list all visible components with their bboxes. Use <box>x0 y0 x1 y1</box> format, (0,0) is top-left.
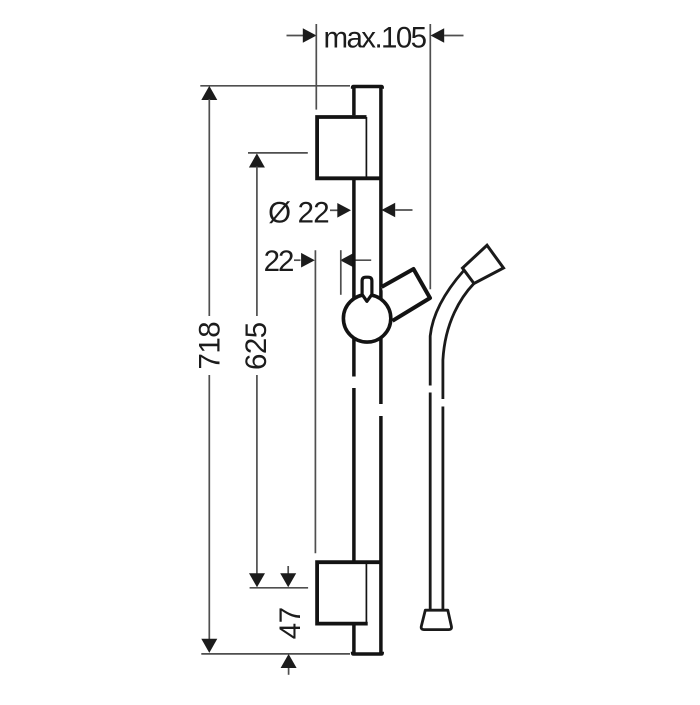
svg-text:22: 22 <box>264 245 293 278</box>
bottom wall bracket right thin edge <box>365 563 367 624</box>
dimension diameter 22 right shaft <box>395 209 412 211</box>
slider knob circle <box>343 295 390 342</box>
dimension 625 bottom arrowhead <box>249 573 265 587</box>
dimension 22 right shaft <box>354 259 371 261</box>
dimension 22 right extension line <box>340 250 342 295</box>
shower rail left edge <box>352 87 356 654</box>
dimension 625 line lower segment <box>256 375 258 574</box>
svg-text:max.105: max.105 <box>324 22 427 55</box>
dimension max.105 left shaft <box>287 35 304 37</box>
top wall bracket right thin edge <box>365 117 367 178</box>
dimension 625 top extension line <box>248 152 308 154</box>
dimension 625 line upper segment <box>256 167 258 317</box>
handshower holder cone <box>382 269 431 321</box>
svg-text:625: 625 <box>240 322 273 370</box>
hose left line <box>430 271 464 612</box>
bottom wall bracket fill <box>315 561 367 625</box>
dimension 22 right arrowhead <box>340 253 354 268</box>
hose bottom conical end <box>421 610 451 629</box>
dimension 625 top arrowhead <box>249 153 265 167</box>
dimension max.105 left extension line <box>315 24 317 110</box>
dimension 22 left shaft <box>294 259 301 261</box>
dimension 22 left arrowhead <box>301 253 315 268</box>
dimension 47 top shaft <box>287 566 289 574</box>
bottom wall bracket thick outline <box>317 562 381 623</box>
shower rail right edge <box>379 87 383 654</box>
dimension 47 bottom shaft <box>288 668 290 675</box>
top wall bracket thick outline <box>317 117 379 178</box>
dimension max.105 right shaft <box>444 35 464 37</box>
slider pin <box>362 277 372 301</box>
dimension diameter 22 left arrowhead <box>337 203 351 218</box>
dimension 22 left extension line <box>314 250 316 553</box>
dimension 625/47 shared extension line <box>250 587 309 589</box>
dimension 718 line upper segment <box>208 99 210 316</box>
svg-text:Ø 22: Ø 22 <box>268 196 329 229</box>
svg-text:718: 718 <box>193 322 226 370</box>
dimension 47 bottom arrowhead <box>281 654 297 668</box>
svg-text:47: 47 <box>274 607 307 639</box>
dimension diameter 22 left shaft <box>330 209 338 211</box>
dimension 718 top arrowhead <box>201 86 217 100</box>
dimension max.105 right extension line <box>429 24 431 289</box>
dimension 718 bottom arrowhead <box>201 639 217 653</box>
hose right line <box>443 284 474 612</box>
dimension diameter 22 right arrowhead <box>382 203 396 218</box>
dimension max.105 left arrowhead <box>303 28 317 43</box>
shower rail top end cap <box>353 87 383 89</box>
dimension 718 top extension line <box>200 85 350 87</box>
dimension max.105 right arrowhead <box>431 28 445 43</box>
top wall bracket fill <box>315 115 366 180</box>
dimension 718 bottom extension line <box>201 653 350 655</box>
dimension 47 top arrowhead <box>280 573 296 587</box>
hose upper conical nut <box>463 245 504 283</box>
shower rail bottom end cap <box>353 652 383 654</box>
dimension 718 line lower segment <box>208 375 210 641</box>
